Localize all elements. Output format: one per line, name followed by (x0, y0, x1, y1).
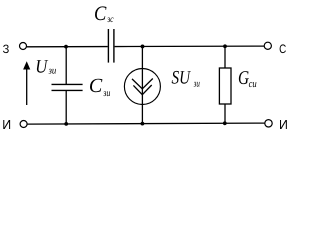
svg-text:зи: зи (102, 88, 110, 99)
svg-text:C: C (94, 3, 107, 25)
svg-text:зс: зс (106, 14, 114, 25)
svg-text:C: C (89, 75, 103, 97)
svg-text:си: си (249, 79, 257, 90)
svg-text:U: U (35, 56, 48, 77)
svg-text:зи: зи (48, 66, 57, 77)
svg-text:З: З (3, 42, 10, 56)
svg-text:И: И (279, 117, 288, 132)
svg-text:G: G (238, 68, 249, 89)
svg-text:зи: зи (193, 79, 200, 90)
svg-text:И: И (2, 117, 11, 132)
svg-text:SU: SU (172, 68, 192, 89)
svg-text:С: С (279, 42, 286, 56)
